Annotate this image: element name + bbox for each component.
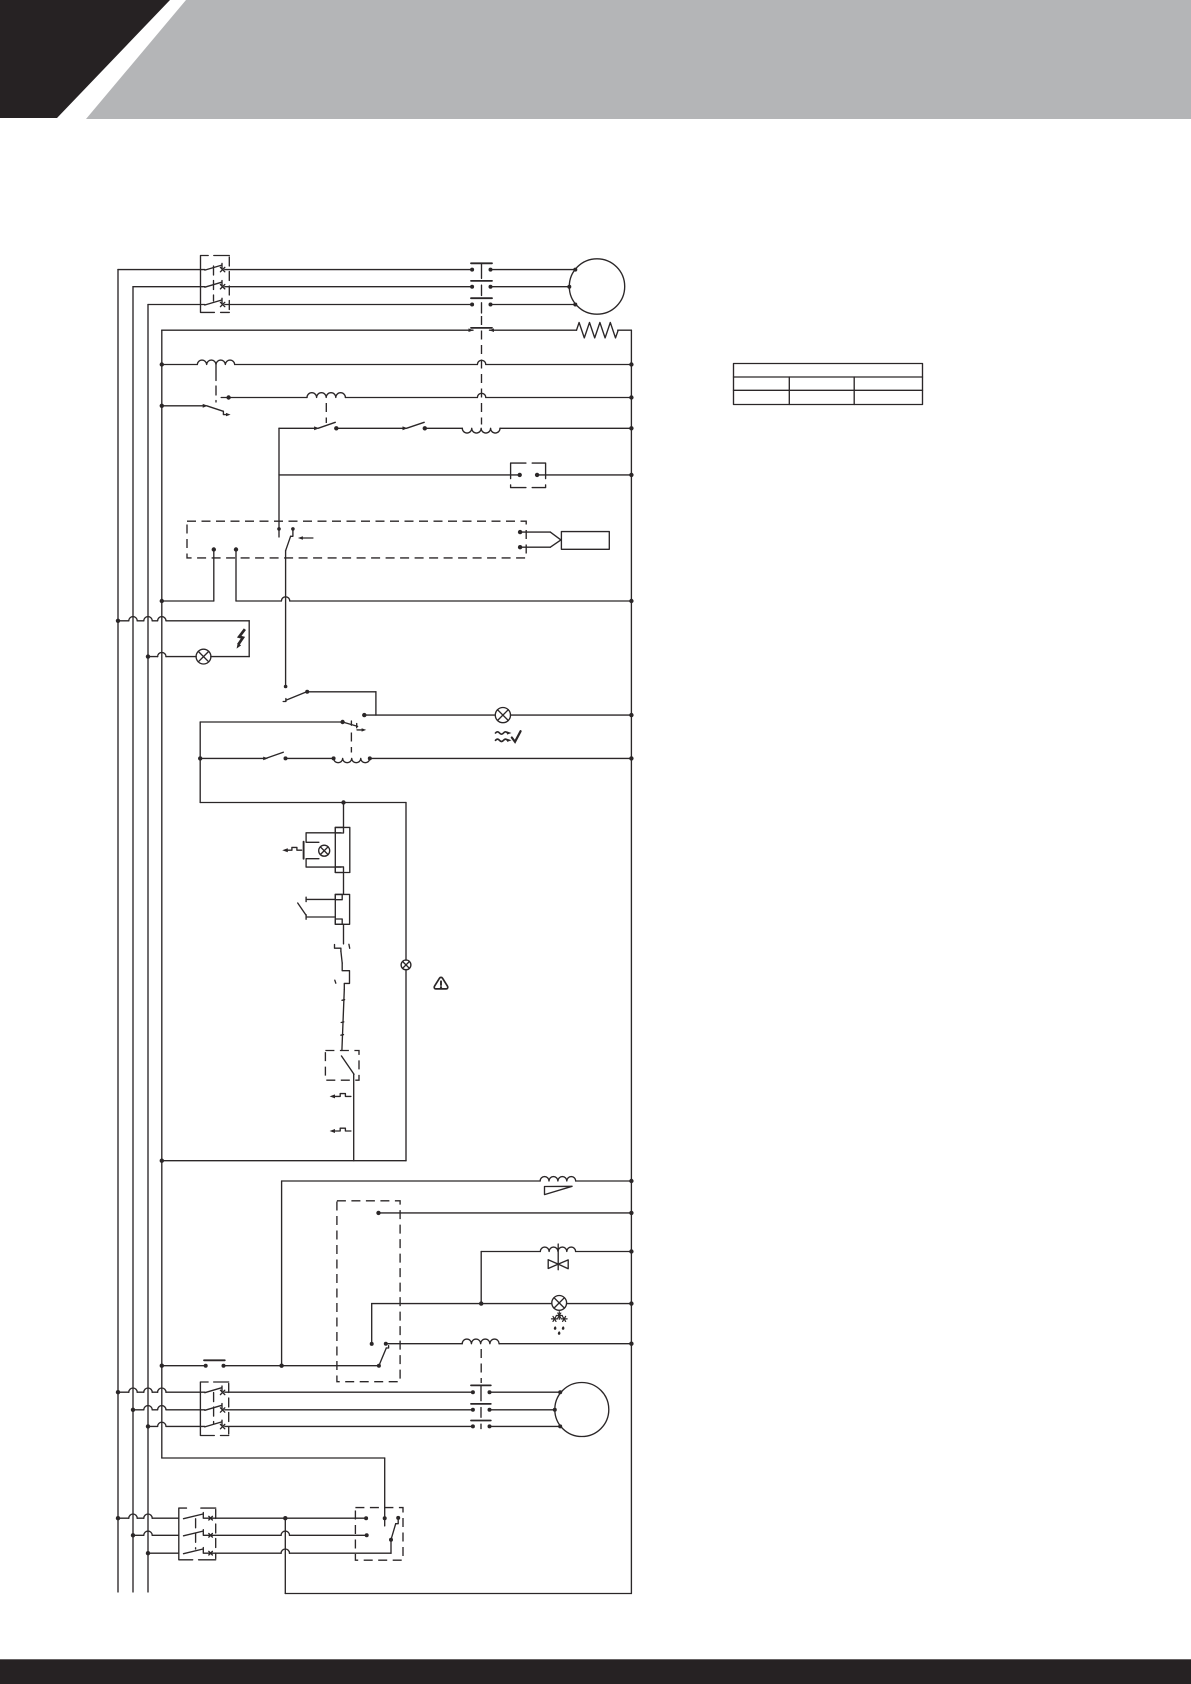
wire S6 to fan coil (286, 756, 336, 760)
wire contactor to motor W (491, 304, 576, 306)
selector changeover blade (389, 1516, 400, 1542)
wire common row from rail L4 (160, 1364, 379, 1368)
wire selector row (200, 721, 342, 723)
wire QF3 row1 to selector box (212, 1516, 369, 1520)
wire coil to right bus (500, 426, 634, 430)
heater element symbol (545, 1186, 573, 1194)
wire vertical node branch (278, 428, 280, 537)
wire QF3 row2 to selector box with hump (212, 1531, 369, 1537)
relay K1 mechanical link (215, 365, 217, 403)
timer switch fixed contact a (370, 1342, 374, 1346)
wire neutral drop (284, 1518, 286, 1593)
lamp H4 (defrost heater light) (552, 1296, 567, 1311)
connector X1 (plug-socket) (511, 463, 546, 488)
switch S3 (403, 422, 427, 430)
defrost timer dashed enclosure (337, 1201, 400, 1382)
empty revision table (734, 364, 923, 405)
resistor (start winding) (577, 323, 619, 338)
lamp H1 (alarm light) (196, 649, 211, 664)
header gray banner (86, 0, 1191, 119)
wire rail L2 (132, 287, 134, 1592)
wire line D to connector (279, 474, 520, 476)
wire relay unit down (343, 924, 345, 944)
wire heater branch vertical (281, 1181, 283, 1366)
wire S4 to fan lamp row (307, 692, 376, 715)
motor M1 (compressor) (567, 259, 624, 314)
wire QF2 to contactor KM2 pole1 (225, 1391, 473, 1393)
thermostat sensing bulb terminals (518, 530, 561, 550)
wire KM2 to motor M2 pole2 (490, 1409, 555, 1411)
wire breaker to contactor pole3 (225, 304, 472, 306)
wire valve branch vertical (479, 1252, 483, 1306)
footer black bar (0, 1659, 1191, 1684)
wire relay line A with crossover hump (160, 360, 634, 366)
defrost heater coil (540, 1177, 576, 1181)
wire L1 feed to breaker (118, 269, 205, 271)
wire lamp H1 branch with rail hump (146, 652, 249, 658)
motor M2 (fan motor) (553, 1383, 609, 1437)
wire rail L4 (161, 330, 163, 1458)
wire L2 feed to breaker QF3 with hump (131, 1531, 179, 1537)
wire L2 feed to breaker (133, 286, 205, 288)
wire rail L3 (147, 305, 149, 1593)
wire bottom return (285, 1593, 631, 1595)
wire fan coil to right bus (368, 756, 634, 760)
relay coil K2 (307, 393, 345, 398)
lamp H2 (defrost indicator) (495, 708, 510, 723)
wire solenoid valve row (481, 1249, 633, 1253)
relay contact unit K4 (298, 894, 350, 924)
wire L3 feed to breaker (148, 304, 205, 306)
fan relay coil K3 (334, 758, 370, 762)
wire resistor to right bus (618, 329, 632, 331)
lamp H3 (run light) (401, 960, 411, 970)
wire L3 feed to breaker QF3 (146, 1551, 179, 1555)
thermostat fixed contact (277, 527, 281, 531)
wire to pushbutton unit (343, 803, 345, 828)
wire L2 feed to breaker QF2 with humps (131, 1406, 205, 1412)
wire heater row (282, 1179, 634, 1183)
wire rail L1 (117, 270, 119, 1592)
wire line C start corner (279, 427, 317, 429)
contactor KM2 coil (462, 1339, 499, 1344)
manual actuator arrow 1 (330, 1094, 351, 1099)
wire lamp row branch vertical (371, 1304, 373, 1342)
wire vertical left branch (199, 722, 201, 803)
contactor KM1 aux contact (469, 328, 495, 332)
wire contactor coil row (386, 1342, 634, 1346)
wire breaker to contactor pole2 (225, 286, 472, 288)
relay K2 mechanical link (325, 403, 327, 423)
illuminated pushbutton SB1 (282, 827, 350, 872)
defrost selector dashed enclosure (355, 1508, 403, 1561)
switch S4 (door switch) (283, 551, 309, 702)
wire fan row (198, 756, 266, 760)
wire breaker to contactor pole1 (225, 269, 472, 271)
contactor KM2 main contacts (471, 1385, 492, 1428)
safety contact chain (335, 944, 350, 1050)
wire rail L4 bottom corner to timer (162, 1458, 387, 1526)
thermostat changeover blade (286, 527, 313, 551)
wire line B with crossover hump (229, 393, 634, 399)
timer changeover blade (377, 1346, 389, 1368)
circuit breaker QF3 (3-pole) (179, 1508, 216, 1560)
melting frost icon (552, 1312, 568, 1335)
wire S2 to S3 (336, 427, 405, 429)
wire defrost lamp row (372, 1301, 634, 1305)
thermostat dashed enclosure (187, 521, 526, 558)
circuit breaker QF1 (3-pole) (201, 256, 230, 313)
wire contactor to motor V (491, 286, 570, 288)
warning triangle (434, 977, 448, 989)
wire control loop right vertical (405, 803, 407, 1161)
wire contactor to motor U (491, 269, 576, 271)
wire KM2 to motor M2 pole1 (490, 1391, 561, 1393)
wire QF2 to contactor KM2 pole2 (225, 1409, 473, 1411)
contactor KM1 mechanical link (481, 316, 483, 425)
thermostat terminal 1 (212, 547, 216, 601)
pressure switch blade (341, 1056, 354, 1074)
wire L1 feed to breaker QF2 with humps (116, 1388, 205, 1394)
wire alarm branch top with rail humps (116, 617, 249, 657)
wire pushbutton to relay unit (343, 873, 345, 895)
wire thermostat T1 to rail L4 (160, 599, 214, 603)
solenoid valve coil (540, 1247, 575, 1251)
auxiliary contact K (204, 1359, 225, 1361)
wire blade common to row3 (390, 1540, 392, 1554)
wire control loop top (200, 800, 406, 804)
wire QF3 row3 to selector box with hump (212, 1549, 392, 1553)
contactor KM1 coil (462, 428, 500, 433)
lightning bolt symbol (237, 629, 245, 648)
wire KM2 to motor M2 pole3 (490, 1425, 561, 1427)
switch S2 (relay contact) (314, 422, 338, 430)
header black corner banner (0, 0, 170, 118)
wire L3 feed to breaker QF2 with hump (146, 1422, 205, 1428)
defrost airflow check icon (496, 731, 521, 742)
wire connector to right bus (537, 473, 634, 477)
wire S3 to contactor coil (425, 427, 463, 429)
circuit breaker QF2 (3-pole) (200, 1382, 228, 1436)
wire QF2 to contactor KM2 pole3 (225, 1425, 473, 1427)
wire aux contact to resistor (490, 329, 577, 331)
thermostat terminal 2 (234, 547, 238, 601)
switch S1 (relay contact) (207, 395, 231, 416)
valve symbol (548, 1244, 568, 1270)
contactor KM2 mechanical link (480, 1349, 482, 1383)
wire control loop bottom (160, 1159, 406, 1163)
wire thermostat T2 to right bus with hump (236, 597, 634, 603)
relay coil K1 (197, 360, 234, 364)
selector mechanical link (350, 733, 352, 753)
contactor KM1 main contacts (470, 263, 492, 313)
sensor bulb body (561, 532, 609, 550)
switch S6 (fan switch) (263, 752, 287, 760)
pressure switch dashed box (325, 1051, 359, 1081)
selector switch S5 (340, 720, 366, 732)
timer switch fixed contact b (384, 1342, 388, 1346)
wire to manual contacts (353, 1074, 355, 1160)
wire run winding from rail L4 (162, 329, 473, 331)
wire right bus (vertical) (630, 330, 632, 1593)
wire L1 feed to breaker QF3 with humps (116, 1514, 179, 1520)
wire timer motor row (376, 1211, 633, 1215)
wire rail L4 to switch S1 (160, 404, 208, 408)
manual actuator arrow 2 (330, 1128, 351, 1133)
wire fan lamp row (362, 713, 634, 717)
